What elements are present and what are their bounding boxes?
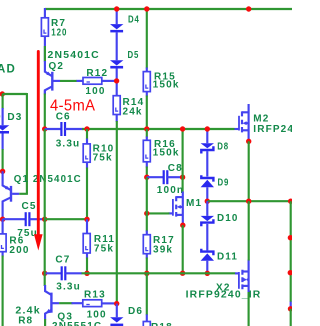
svg-text:24k: 24k [123,106,143,117]
wire right edge bottom [290,309,292,326]
junction dot mid bus D8 column [205,126,210,131]
wire C5 right lead [29,218,42,220]
junction dot C6 left on main column [42,126,47,131]
wire D6 top lead [116,304,118,318]
wire R7 to Q2 emitter [44,36,46,62]
wire R11 bottom lead [86,253,88,259]
wire M2 source to output node [248,141,250,201]
svg-text:R13: R13 [84,289,106,300]
wire Q1 base to column [19,193,28,195]
wire main column C6 to C5 [44,129,46,219]
resistor R13 [83,300,102,307]
junction dot left middle [0,169,5,174]
resistor R15 [143,72,150,92]
junction dot output at M2 column [246,199,251,204]
junction dot mid bus at R10 [84,126,89,131]
svg-text:D9: D9 [218,177,230,188]
wire right edge blue stub [290,302,292,307]
wire mid bus [82,128,235,130]
diode D5 [110,60,123,68]
wire R15 top lead [146,9,148,69]
wire right edge column [290,201,292,302]
svg-text:150k: 150k [153,79,180,90]
junction dot top bus R15 column [144,6,149,11]
svg-text:C8: C8 [168,163,183,174]
wire R6 bottom to edge [2,256,4,326]
wire C5 bus to R10/R11 [45,218,87,220]
junction dot mid bus R16 column [144,126,149,131]
wire R12 right lead [102,80,117,82]
svg-text:3.3u: 3.3u [56,138,81,149]
wire C7 right lead [65,272,82,274]
transistor Q1 (PNP) [3,171,20,219]
diode D3 [0,125,9,133]
wire C6 left lead [45,128,62,130]
mosfet M2 (NMOS) [235,104,249,141]
wire R10 top lead [86,129,88,140]
svg-text:M1: M1 [186,198,202,209]
wire D3 to dot [2,134,4,151]
junction dot bottom bus R17 column [144,271,149,276]
wire M1 drain column from mid bus [182,129,184,177]
svg-text:2N5401C: 2N5401C [48,50,100,61]
wire R10 bottom lead [86,162,88,168]
wire X2 drain down [248,292,250,326]
mosfet X2 (PMOS) [239,260,249,293]
wire R6 top lead [2,219,4,234]
wire R16 column C8 to gate node [146,177,148,213]
wire top left horizontal [2,93,27,95]
wire D8 top lead [206,129,208,143]
junction dot left top [0,91,5,96]
wire C7 left lead [45,272,62,274]
svg-text:D4: D4 [128,14,140,25]
wire Q3 collector lead [44,273,46,286]
svg-text:AD: AD [0,64,16,76]
svg-text:R18: R18 [151,322,173,326]
junction dot output node [205,199,210,204]
svg-text:75k: 75k [94,243,114,254]
wire R12 left lead [77,80,84,82]
capacitor C7 [62,266,66,280]
diode D4 [110,24,123,32]
junction dot C5 left [0,217,5,222]
wire C8 right lead [167,176,182,178]
svg-text:Q1 2N5401C: Q1 2N5401C [14,174,82,185]
junction dot mid bus M1 column [180,126,185,131]
wire top bus [45,8,292,10]
svg-text:D3: D3 [7,112,22,123]
svg-text:D5: D5 [128,50,140,61]
junction dot M1 gate at R16 column [144,211,149,216]
resistor R12 [83,78,102,85]
wire X2 source up to output node [248,201,250,260]
wire Q2 collector down [44,90,46,94]
wire R14 bottom lead [116,115,118,123]
wire Q2 base to R12 [60,80,77,82]
svg-text:Q2: Q2 [49,61,65,72]
junction dot top bus M2 column [246,6,251,11]
wire Q3 base to R13 [59,302,72,304]
svg-text:D11: D11 [217,251,238,262]
junction dot C8 right / M1 drain column [180,175,185,180]
transistor Q3 (NPN) [45,285,59,320]
junction dot right edge bottom [288,306,293,311]
resistor R7 [41,18,48,36]
wire R18 top lead [146,273,148,315]
wire output node horizontal [207,200,290,202]
wire R15 bottom lead [146,92,148,97]
svg-text:2N5551C: 2N5551C [52,321,102,326]
svg-text:D10: D10 [217,213,239,224]
diode D8 [201,143,214,153]
svg-text:D6: D6 [128,306,143,317]
svg-text:M2: M2 [253,113,269,124]
junction dot C7 right [84,271,89,276]
resistor R6 [0,234,6,252]
diode D6 [110,317,123,326]
wire D4 to D5 [116,32,118,60]
resistor R10 [83,144,90,162]
capacitor C8 [164,170,168,184]
junction dot right edge mid1 [288,235,293,240]
wire R16 bottom lead [146,162,148,168]
svg-text:100: 100 [87,309,107,320]
wire M1 gate to R16 column [147,212,170,214]
resistor R11 [83,234,90,254]
wire D10 top lead [206,201,208,216]
wire bottom bus [82,272,236,274]
svg-text:100n: 100n [157,185,184,196]
svg-text:150k: 150k [153,147,180,158]
wire X2 gate stub [235,272,239,274]
svg-text:C5: C5 [22,201,37,212]
wire R17 bottom lead [146,254,148,259]
resistor R18 (clipped at bottom) [143,322,150,326]
wire D5 to R14 node [116,69,118,96]
junction dot bottom bus M1 column [180,271,185,276]
svg-text:75k: 75k [93,153,113,164]
wire M1 drain lead [182,177,184,192]
svg-text:C6: C6 [56,112,71,123]
wire M1 source down to bottom bus [182,225,184,273]
wire D4 top lead [116,9,118,24]
resistor R17 [143,235,150,254]
svg-text:D8: D8 [217,141,229,152]
svg-text:120: 120 [51,28,67,39]
wire R17 top lead [146,213,148,231]
capacitor C5 [26,212,30,226]
junction dot M2 source [246,139,251,144]
junction dot right edge mid2 [288,270,293,275]
wire left column to D3 [2,94,4,109]
wire C6 right lead [65,128,83,130]
wire D10 to D11 [206,224,208,251]
junction dot R12/D5/R14 [114,78,119,83]
capacitor C6 [61,122,65,136]
wire D8 to D9 [206,151,208,176]
wire Q1 base column [26,93,28,194]
wire R11 top lead [86,219,88,233]
junction dot R13/D6 [114,301,119,306]
wire long mid column [116,121,118,304]
junction dot top bus D4 column [114,6,119,11]
svg-text:R8: R8 [18,315,33,326]
wire D9 to junction [206,187,208,201]
svg-text:200: 200 [9,245,29,256]
mosfet M1 (NMOS) [169,192,183,226]
wire R16 top lead [146,129,148,138]
svg-text:39k: 39k [153,244,173,255]
wire main column C5 to C7 [44,219,46,273]
wire C8 left lead [147,176,164,178]
wire C5 left lead [3,218,26,220]
svg-text:IRFP240: IRFP240 [253,124,292,135]
svg-text:100: 100 [85,86,105,97]
diode D11 [201,249,214,261]
wire R13 right lead [102,302,117,304]
junction dot M1 source [180,223,185,228]
wire D11 bottom lead [206,261,208,274]
annotation red arrow 4-5mA current [34,52,43,251]
svg-text:C7: C7 [55,254,70,265]
junction dot output right edge [288,199,293,204]
resistor R14 [113,96,120,115]
svg-text:R12: R12 [86,68,108,79]
junction dot bottom bus D11 column [205,271,210,276]
transistor Q2 (PNP) [45,61,60,94]
wire R6 bottom lead [2,252,4,257]
wire Q3 emitter down [44,319,46,326]
junction dot R10/R11 [84,217,89,222]
wire R7 top lead [44,8,46,18]
junction dot C8 left [144,175,149,180]
resistor R16 [143,140,150,162]
svg-text:IRFP9240_IR: IRFP9240_IR [186,290,262,301]
diode D9 [201,175,214,187]
svg-text:9: 9 [0,112,2,123]
junction dot C7 left on main column [42,271,47,276]
svg-text:3.3u: 3.3u [56,281,81,292]
junction dot C5 right on main column [42,217,47,222]
diode D10 [201,216,214,226]
